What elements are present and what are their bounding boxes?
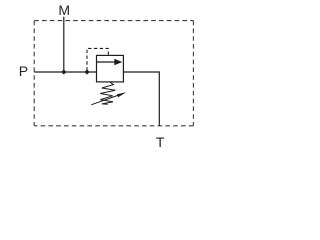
enclosure dashed boundary (left) (33, 21, 35, 126)
spring (adjustable) (100, 82, 115, 104)
svg-text:M: M (58, 2, 70, 18)
junction node (M line on P line) (61, 69, 66, 74)
enclosure dashed boundary (bottom) (34, 125, 193, 127)
junction node (pilot tap on P line) (84, 69, 89, 74)
adjustment arrow (91, 95, 118, 105)
svg-text:T: T (156, 134, 165, 150)
pilot line (dashed) (87, 48, 108, 70)
flow path arrow (97, 61, 115, 63)
enclosure dashed boundary (right) (192, 21, 194, 126)
svg-text:P: P (19, 63, 28, 79)
relief valve body (97, 55, 124, 82)
wire P (34, 71, 96, 73)
enclosure dashed boundary (top) (34, 20, 193, 22)
wire M (gauge line) (63, 17, 65, 72)
wire T (valve out to tank) (123, 72, 159, 126)
